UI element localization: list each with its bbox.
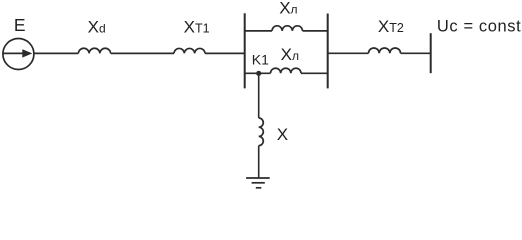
top branch wire left <box>245 30 272 32</box>
wire from source to Xd <box>34 52 79 54</box>
source E circle U0 <box>3 39 34 70</box>
inductor X vertical <box>259 118 264 146</box>
svg-text:X: X <box>277 125 288 144</box>
left busbar <box>244 13 246 88</box>
svg-text:K1: K1 <box>252 51 269 67</box>
wire X to ground <box>258 146 260 178</box>
right busbar <box>327 14 329 89</box>
inductor X line top <box>272 26 303 31</box>
wire XT2 to system terminal <box>401 52 431 54</box>
node K1 junction dot <box>256 71 261 76</box>
svg-text:Xл: Xл <box>281 45 299 64</box>
system terminal bar Uc <box>430 33 432 73</box>
wire XT1 to left bus <box>205 52 245 54</box>
source arrow <box>3 52 30 54</box>
inductor XT1 <box>174 48 205 53</box>
svg-text:E: E <box>14 15 26 35</box>
inductor Xd <box>78 48 110 53</box>
svg-text:XT1: XT1 <box>184 17 210 36</box>
wire right bus to XT2 <box>328 52 369 54</box>
inductor XT2 <box>369 48 401 53</box>
svg-text:Xл: Xл <box>279 0 297 18</box>
source arrowhead <box>22 49 32 57</box>
wire K1 down to X <box>258 73 260 118</box>
top branch wire right <box>303 30 328 32</box>
ground symbol <box>246 177 270 179</box>
bottom branch wire left <box>245 72 271 74</box>
inductor X line bottom <box>271 68 302 73</box>
svg-text:Xd: Xd <box>88 17 106 36</box>
svg-text:XT2: XT2 <box>378 17 404 36</box>
svg-text:Uc = const: Uc = const <box>437 18 521 36</box>
wire Xd to XT1 <box>111 52 174 54</box>
bottom branch wire right <box>301 72 328 74</box>
